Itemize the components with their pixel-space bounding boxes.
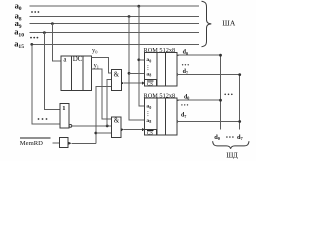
svg-text:10: 10: [18, 32, 24, 38]
svg-text:0: 0: [19, 6, 22, 12]
wire a10 to NOR input 1: [44, 33, 59, 110]
junction d7 ROM2: [238, 120, 241, 123]
ROM2 d7 output arrow: [177, 120, 179, 123]
svg-text:8: 8: [19, 16, 22, 22]
brace address bus: [202, 1, 212, 46]
ROM1 CS pin box: [145, 80, 157, 86]
NOR output bubble: [69, 125, 72, 128]
svg-text:0: 0: [187, 96, 189, 101]
dots ellipsis a11..a14: [30, 37, 38, 39]
wire MemRD to AND2 bottom input: [96, 132, 112, 134]
dots ROM2 outputs: [181, 104, 188, 105]
ROM2 d0 output arrow: [177, 99, 179, 102]
svg-text:&: &: [114, 70, 120, 78]
ROM2 CS pin box: [145, 129, 157, 135]
dots data bus bottom: [226, 136, 234, 138]
junction d0 ROM1: [219, 54, 222, 57]
wire ROM1 d7: [177, 74, 240, 76]
wire y0 to AND1 top input: [92, 58, 112, 73]
svg-text:8: 8: [149, 74, 151, 78]
node y0 label: [92, 47, 98, 55]
net label MemRD with overline: [20, 137, 51, 139]
ROM1 pin a8: [146, 71, 151, 77]
junction a9 tap: [51, 22, 54, 25]
junction a8 branch ROM1: [128, 72, 131, 75]
node d0 label ROM1: [183, 49, 188, 55]
wire data bus vertical d0: [220, 55, 222, 129]
wire a10 bus line: [30, 32, 200, 34]
AND gate U2 lower: [112, 117, 121, 137]
junction MemRD branch to AND2: [94, 132, 97, 135]
node y1 label: [94, 62, 99, 70]
wire a9 bus line: [30, 23, 200, 25]
junction d7 ROM1: [238, 73, 241, 76]
wire a8 into ROM1: [129, 72, 145, 74]
buffer box: [60, 138, 69, 148]
node a15 label: [14, 39, 24, 51]
ROM1 box: [145, 52, 178, 86]
junction a0 tap: [137, 5, 140, 8]
wire a0 into ROM1: [139, 59, 145, 61]
wire ROM1 d0: [177, 54, 221, 56]
svg-text:0: 0: [149, 59, 151, 63]
junction d0 ROM2: [219, 99, 222, 102]
svg-text:ШД: ШД: [226, 152, 238, 160]
buffer output arrow: [68, 142, 71, 145]
svg-text:7: 7: [241, 136, 244, 141]
junction a15 tap: [30, 43, 33, 46]
wire MemRD riser: [96, 86, 112, 143]
wire ROM2 d7: [177, 121, 240, 123]
svg-text:8: 8: [149, 120, 151, 124]
node a9 label: [15, 18, 22, 30]
ROM1 CS entry arrow: [142, 81, 145, 84]
svg-text:0: 0: [218, 136, 221, 141]
wire a15 bus line: [31, 43, 199, 45]
wire NOR to AND1 middle input: [107, 80, 111, 126]
wire NOR output to AND2: [72, 125, 112, 127]
junction a10 tap: [43, 31, 46, 34]
wire MemRD to buffer: [52, 142, 59, 144]
wire a9 to DC: [52, 24, 61, 61]
svg-text:0: 0: [95, 50, 98, 55]
node a8 label: [15, 11, 22, 23]
wire ROM2 d0: [177, 99, 221, 101]
AND1 output arrow: [121, 81, 124, 84]
junction a0 branch ROM1: [137, 58, 140, 61]
ROM2 pin a8: [146, 118, 151, 124]
svg-text:MemRD: MemRD: [20, 140, 43, 147]
node d0 label ROM2: [184, 94, 189, 100]
svg-text:DC: DC: [73, 55, 83, 63]
NOR gate box 1: [60, 104, 69, 128]
svg-text:9: 9: [19, 24, 22, 30]
wire a0 down to ROMs: [139, 6, 145, 106]
ROM1 pin a0: [146, 57, 151, 63]
node d0 label bus: [214, 134, 221, 141]
brace data bus: [213, 141, 249, 149]
wire a8 bus line: [30, 16, 200, 18]
svg-text:7: 7: [184, 114, 186, 119]
junction a8 tap: [128, 15, 131, 18]
junction NOR to AND1 riser: [106, 125, 109, 128]
wire AND2 to ROM2 CS: [124, 129, 142, 131]
AND gate U1 upper: [112, 70, 122, 91]
node d7 label ROM1: [183, 69, 188, 75]
dots ROM1 address: [147, 65, 148, 70]
dots ROM2 address: [147, 111, 148, 116]
wire a8 down to ROMs: [129, 17, 145, 120]
ROM1 d7 output arrow: [177, 73, 179, 76]
node d7 label ROM2: [181, 113, 186, 119]
wire data bus vertical d7: [239, 75, 241, 130]
wire y1 to AND2 top input: [92, 69, 112, 119]
svg-text:a: a: [63, 55, 67, 63]
svg-text:1: 1: [62, 105, 65, 112]
dots ellipsis NOR inputs: [38, 118, 48, 120]
wire a15 to NOR input 2: [32, 44, 60, 123]
ROM1 d0 output arrow: [177, 54, 179, 57]
svg-text:&: &: [114, 116, 120, 124]
wire a0 bus line: [30, 5, 200, 7]
wire AND1 to ROM1 CS: [124, 82, 142, 84]
node a10 label: [14, 27, 24, 39]
svg-text:CS: CS: [147, 81, 153, 87]
ROM2 CS entry arrow: [142, 128, 145, 131]
svg-text:0: 0: [186, 51, 188, 56]
node a0 label: [15, 0, 22, 12]
svg-text:ШA: ШA: [222, 18, 236, 27]
decoder DC box: [61, 56, 92, 91]
svg-text:CS: CS: [147, 131, 153, 137]
ROM2 box: [145, 98, 178, 135]
dots ROM1 outputs: [182, 64, 189, 65]
svg-text:15: 15: [18, 44, 24, 50]
AND2 output arrow: [121, 128, 124, 131]
ROM2 pin a0: [146, 104, 151, 110]
wire MemRD buffered: [71, 142, 96, 144]
node d7 label bus: [237, 134, 244, 141]
dots data bus middle: [224, 94, 232, 96]
dots ellipsis a1..a7: [31, 11, 39, 13]
svg-text:0: 0: [149, 106, 151, 110]
